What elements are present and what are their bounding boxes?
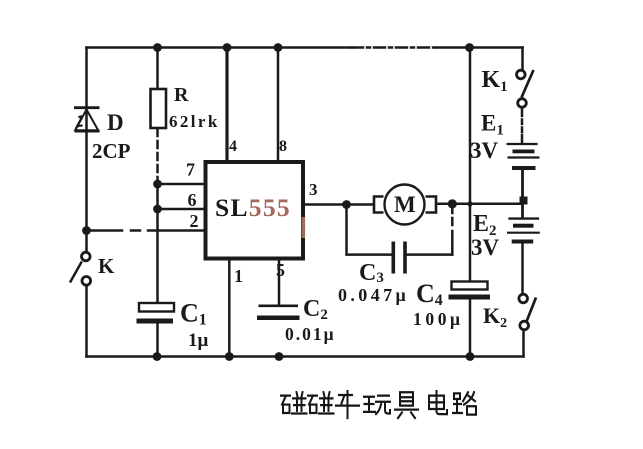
svg-text:C4: C4 <box>416 279 443 309</box>
svg-text:5: 5 <box>276 260 285 280</box>
svg-text:1μ: 1μ <box>188 330 209 351</box>
svg-text:3V: 3V <box>471 235 500 260</box>
svg-text:3V: 3V <box>470 138 499 163</box>
svg-text:K2: K2 <box>483 303 507 331</box>
svg-text:M: M <box>394 192 416 217</box>
svg-text:C3: C3 <box>359 260 384 286</box>
svg-text:0.047μ: 0.047μ <box>338 285 409 305</box>
svg-text:E1: E1 <box>481 111 504 139</box>
svg-text:8: 8 <box>279 138 287 155</box>
svg-text:6: 6 <box>188 190 197 210</box>
svg-text:7: 7 <box>186 160 195 180</box>
svg-text:62lrk: 62lrk <box>169 112 220 131</box>
svg-text:1: 1 <box>234 266 243 286</box>
svg-text:4: 4 <box>229 138 237 155</box>
svg-text:C2: C2 <box>303 296 328 323</box>
svg-text:R: R <box>174 84 189 106</box>
svg-text:100μ: 100μ <box>413 309 464 329</box>
svg-text:3: 3 <box>309 180 318 199</box>
svg-text:D: D <box>107 110 124 135</box>
svg-text:SL555: SL555 <box>215 193 291 222</box>
svg-text:C1: C1 <box>180 299 207 329</box>
svg-text:2: 2 <box>190 211 199 231</box>
svg-text:2CP: 2CP <box>92 139 131 163</box>
svg-text:K: K <box>98 254 115 278</box>
svg-text:0.01μ: 0.01μ <box>285 324 336 344</box>
svg-text:K1: K1 <box>482 67 508 95</box>
